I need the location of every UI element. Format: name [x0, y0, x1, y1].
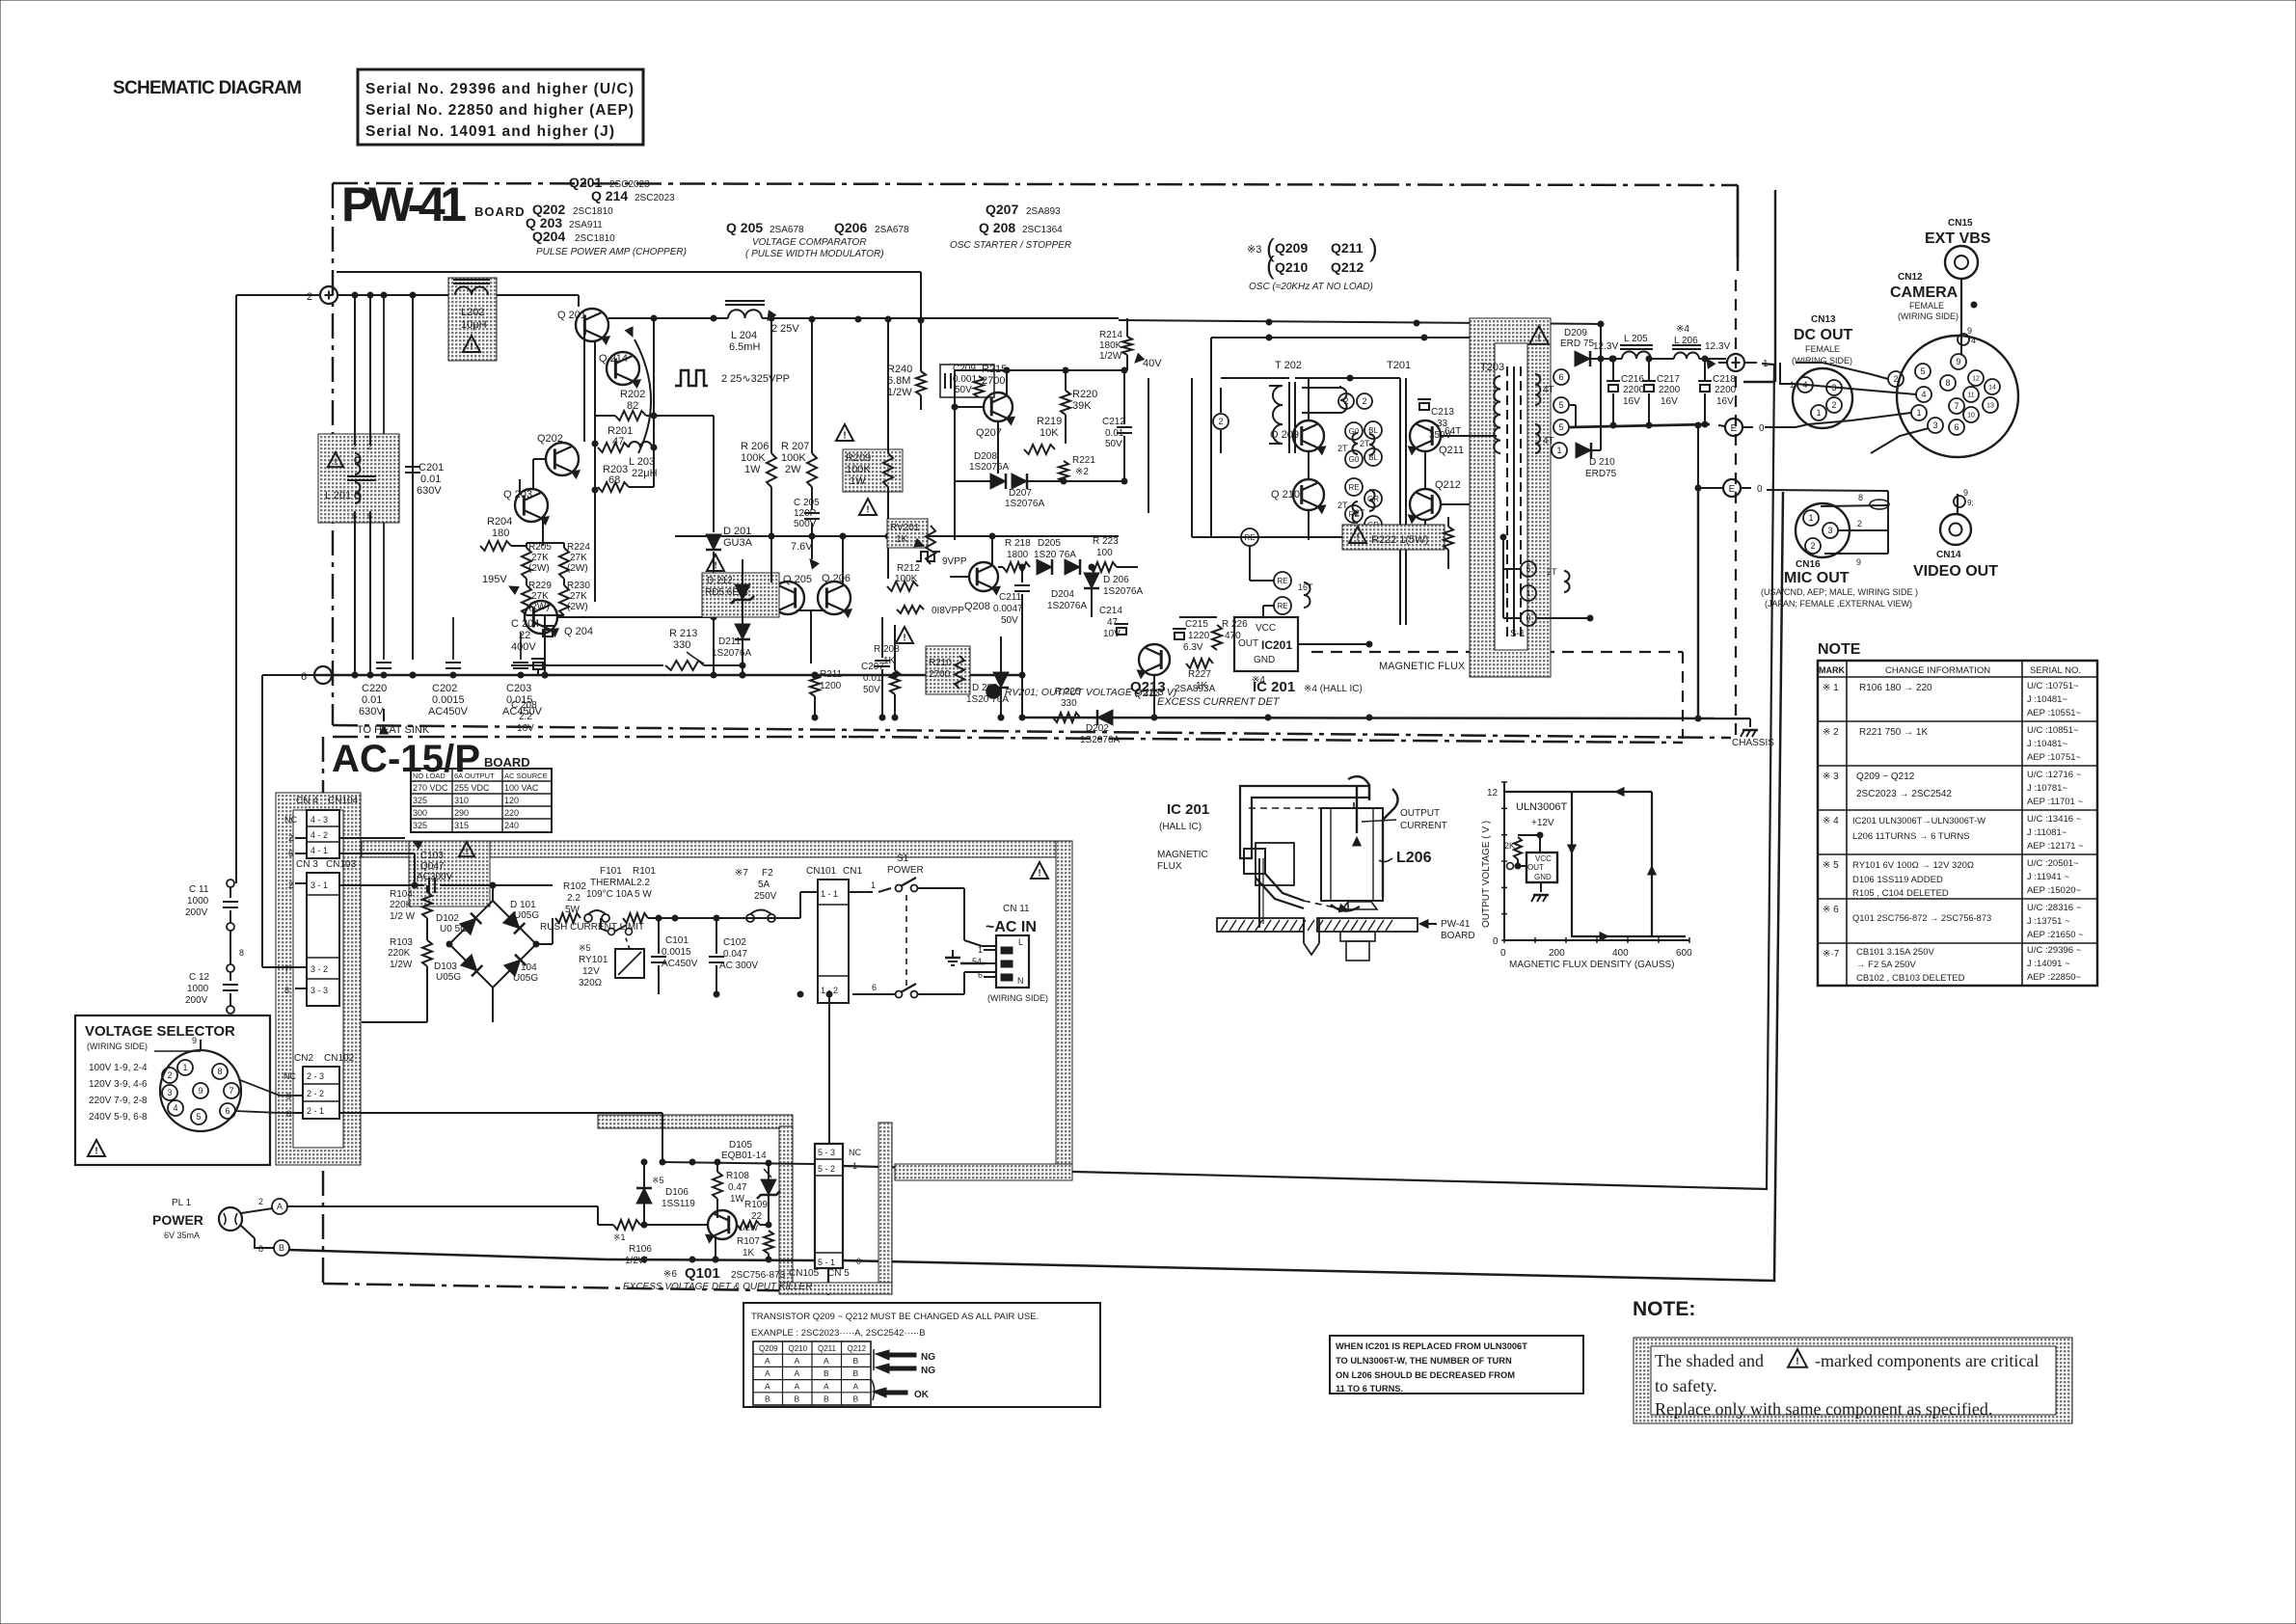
capacitor C12	[230, 972, 231, 981]
svg-text:6: 6	[872, 983, 877, 992]
svg-text:Q 208: Q 208	[979, 220, 1015, 235]
svg-text:2SA678: 2SA678	[875, 225, 909, 235]
svg-text:MIC OUT: MIC OUT	[1784, 570, 1850, 586]
svg-text:C203: C203	[506, 683, 531, 694]
svg-text:U/C :29396 ~: U/C :29396 ~	[2027, 945, 2082, 956]
svg-text:R109: R109	[744, 1200, 768, 1210]
resistor R219	[1024, 445, 1055, 454]
terminal - (pin 6)	[314, 666, 332, 684]
svg-text:0.01: 0.01	[1105, 428, 1124, 439]
svg-text:100: 100	[1096, 548, 1113, 558]
svg-text:0: 0	[1500, 948, 1506, 959]
svg-text:ON L206 SHOULD BE DECREASE: ON L206 SHOULD BE DECREASED FROM	[1336, 1370, 1515, 1380]
svg-text:BOARD: BOARD	[474, 204, 526, 219]
camera pin 13	[1983, 397, 1998, 413]
svg-text:U/C :12716 ~: U/C :12716 ~	[2027, 770, 2082, 780]
resistor R208	[890, 670, 900, 694]
svg-text:※6: ※6	[663, 1269, 677, 1280]
svg-text:10μH: 10μH	[461, 319, 487, 331]
svg-text:6: 6	[1954, 422, 1958, 432]
svg-text:CN 11: CN 11	[1003, 904, 1030, 914]
svg-text:B: B	[853, 1356, 859, 1366]
svg-text:120: 120	[504, 796, 519, 805]
svg-text:RV201: RV201	[890, 523, 920, 533]
transformer T201 core	[1399, 378, 1401, 625]
graph hysteresis curve	[1504, 791, 1652, 793]
wire bottom bus AC	[288, 1250, 815, 1260]
svg-text:50V: 50V	[1001, 615, 1018, 626]
wire Q201 emitter rail	[608, 317, 728, 319]
svg-text:GND: GND	[1534, 873, 1552, 881]
wire RE bus	[1192, 536, 1416, 538]
svg-text:A: A	[853, 1381, 859, 1391]
transistor pair table grid	[753, 1341, 871, 1405]
wire	[998, 566, 1003, 568]
pin circle 2	[1213, 414, 1229, 429]
capacitor C212	[1117, 426, 1132, 428]
svg-text:Q204: Q204	[532, 229, 565, 244]
svg-text:290: 290	[454, 808, 469, 818]
svg-text:NC: NC	[849, 1148, 861, 1157]
transistor Q213	[1139, 644, 1170, 675]
VOLTAGE SELECTOR box	[75, 1015, 270, 1165]
svg-text:C202: C202	[432, 683, 457, 694]
warning triangle T203	[1529, 326, 1549, 344]
svg-text:82: 82	[627, 400, 638, 412]
svg-text:※7: ※7	[735, 868, 748, 879]
svg-text:11: 11	[1967, 392, 1974, 399]
resistor R214	[1122, 337, 1132, 355]
svg-text:8: 8	[284, 986, 289, 995]
svg-text:EXCESS CURRENT DET: EXCESS CURRENT DET	[1157, 696, 1281, 708]
svg-text:C220: C220	[362, 683, 387, 694]
wire video lead	[1957, 427, 1958, 494]
svg-text:A: A	[824, 1381, 829, 1391]
svg-text:NO LOAD: NO LOAD	[413, 771, 446, 780]
svg-text:R204: R204	[487, 516, 512, 528]
svg-text:FEMALE: FEMALE	[1805, 344, 1840, 354]
resistor R205 27K	[522, 548, 531, 579]
svg-text:NG: NG	[921, 1352, 935, 1363]
svg-text:DC OUT: DC OUT	[1794, 327, 1853, 343]
svg-text:EQB01-14: EQB01-14	[721, 1150, 767, 1161]
transformer T203 winding 64T	[1494, 376, 1500, 453]
selector pin 4	[168, 1100, 183, 1116]
jack EXT VBS	[1945, 246, 1978, 279]
svg-text:CN104: CN104	[328, 796, 359, 806]
svg-text:2T: 2T	[1360, 439, 1370, 448]
svg-text:U05G: U05G	[436, 972, 461, 983]
svg-text:EXANPLE : 2SC2023·····A, 2SC2: EXANPLE : 2SC2023·····A, 2SC2542·····B	[751, 1328, 926, 1339]
transistor Q208	[969, 562, 998, 591]
transformer T203 right winding 4T lower	[1535, 424, 1540, 453]
resistor R224 27K	[559, 548, 569, 579]
svg-text:1800: 1800	[1007, 550, 1029, 560]
svg-text:CN105: CN105	[789, 1268, 820, 1279]
pin 5 b	[1553, 420, 1569, 435]
svg-text:Q 209: Q 209	[1270, 429, 1299, 441]
svg-text:A: A	[795, 1381, 800, 1391]
svg-text:Replace only with same compone: Replace only with same component as spec…	[1655, 1399, 1992, 1419]
diode bridge D103	[461, 955, 483, 977]
svg-text:4: 4	[173, 1103, 177, 1113]
svg-text:Q211: Q211	[1331, 240, 1364, 256]
svg-text:N: N	[1017, 976, 1024, 986]
svg-text:D 206: D 206	[1103, 575, 1129, 585]
svg-text:C102: C102	[723, 937, 746, 948]
resistor R209	[883, 453, 893, 487]
svg-text:※ 1: ※ 1	[1823, 683, 1839, 693]
resistor R202	[615, 411, 646, 420]
svg-text:50V: 50V	[863, 685, 880, 695]
svg-text:109°C 10A: 109°C 10A	[586, 889, 634, 900]
svg-text:D106: D106	[665, 1187, 689, 1198]
svg-text:R219: R219	[1037, 416, 1062, 427]
wire - bus	[322, 675, 324, 684]
svg-text:27K: 27K	[531, 553, 549, 563]
terminal + DC	[1727, 354, 1744, 371]
svg-text:D106 1SS119 ADDED: D106 1SS119 ADDED	[1852, 875, 1943, 885]
svg-text:240: 240	[504, 821, 519, 830]
svg-text:SCHEMATIC DIAGRAM: SCHEMATIC DIAGRAM	[113, 78, 302, 98]
wire camera pin4 lead	[1796, 384, 1916, 394]
resistor R226	[1212, 625, 1222, 650]
selector pin 1	[177, 1060, 193, 1075]
svg-text:OUT: OUT	[1527, 863, 1544, 872]
svg-text:U/C :13416 ~: U/C :13416 ~	[2027, 814, 2082, 825]
transistor Q203	[515, 489, 548, 522]
wire	[852, 993, 895, 995]
svg-text:C 205: C 205	[794, 498, 820, 508]
svg-text:320Ω: 320Ω	[579, 978, 603, 988]
svg-text:10V: 10V	[1103, 629, 1121, 639]
wire	[1119, 535, 1192, 537]
svg-text:RY101: RY101	[579, 955, 608, 965]
warning triangle R207	[836, 424, 853, 441]
wire	[1651, 358, 1674, 360]
svg-text:12V: 12V	[582, 966, 600, 977]
svg-text:200: 200	[1549, 948, 1565, 959]
svg-text:(HALL IC): (HALL IC)	[1159, 822, 1202, 832]
svg-text:ULN3006T: ULN3006T	[1516, 801, 1567, 813]
svg-text:27K: 27K	[570, 591, 587, 602]
svg-text:※ 5: ※ 5	[1823, 860, 1839, 871]
svg-text:R212: R212	[897, 563, 920, 574]
svg-text:4 - 2: 4 - 2	[311, 830, 328, 840]
svg-text:(2W): (2W)	[528, 602, 550, 612]
svg-text:NOTE: NOTE	[1818, 641, 1861, 658]
svg-text:A: A	[795, 1368, 800, 1378]
svg-text:250V: 250V	[754, 891, 777, 902]
svg-text:2: 2	[1343, 396, 1348, 406]
shaded vertical band CN column	[276, 793, 361, 1165]
svg-text:0.47: 0.47	[728, 1182, 747, 1193]
micout pin 2	[1805, 538, 1821, 554]
wire	[1697, 425, 1699, 488]
svg-text:2 25V: 2 25V	[771, 323, 799, 335]
svg-text:5: 5	[1920, 366, 1925, 376]
terminal A	[272, 1199, 287, 1214]
svg-text:2SC2023: 2SC2023	[635, 193, 675, 203]
svg-text:※1: ※1	[613, 1232, 626, 1242]
resistor R201	[598, 443, 629, 452]
svg-text:6: 6	[301, 671, 307, 683]
camera pin 11	[1963, 387, 1979, 402]
connector CN105/CN5	[815, 1144, 843, 1268]
svg-text:240V 5-9, 6-8: 240V 5-9, 6-8	[89, 1112, 148, 1123]
svg-text:CN102: CN102	[324, 1053, 355, 1064]
warning triangle RV201	[859, 499, 877, 515]
wire	[1217, 663, 1234, 664]
svg-text:4: 4	[1802, 380, 1807, 390]
shaded C103 box	[409, 841, 490, 907]
svg-text:TO ULN3006T-W, THE NUMBER O: TO ULN3006T-W, THE NUMBER OF TURN	[1336, 1356, 1512, 1366]
camera pin 3	[1928, 418, 1943, 433]
svg-text:GND: GND	[1254, 655, 1275, 665]
svg-text:※ 6: ※ 6	[1823, 905, 1839, 915]
svg-text:1: 1	[1816, 408, 1821, 418]
wire inner rail	[337, 271, 921, 273]
svg-text:to safety.: to safety.	[1655, 1376, 1717, 1395]
svg-text:2 - 3: 2 - 3	[307, 1071, 324, 1081]
wire	[557, 616, 714, 618]
svg-text:C 11: C 11	[189, 884, 209, 895]
svg-text:C212: C212	[1102, 417, 1125, 427]
svg-text:( PULSE WIDTH MODULATOR): ( PULSE WIDTH MODULATOR)	[745, 249, 884, 259]
svg-text:Q212: Q212	[1435, 479, 1461, 491]
svg-text:PW-41: PW-41	[1441, 919, 1471, 930]
wire bridge	[449, 901, 536, 988]
svg-text:AC 300V: AC 300V	[719, 961, 758, 971]
svg-text:Q 205: Q 205	[726, 220, 763, 235]
transistor Q206	[818, 582, 851, 614]
svg-text:NOTE:: NOTE:	[1633, 1298, 1695, 1320]
svg-text:NG: NG	[921, 1366, 935, 1376]
connector DC OUT CN13	[1793, 368, 1852, 428]
svg-text:6: 6	[225, 1106, 230, 1116]
svg-text:12.3V: 12.3V	[1593, 341, 1618, 352]
capacitor C209	[944, 373, 946, 389]
svg-text:270 VDC: 270 VDC	[413, 783, 448, 793]
svg-text:180K: 180K	[1099, 340, 1122, 351]
svg-text:2.2: 2.2	[567, 893, 581, 904]
svg-text:R230: R230	[567, 581, 590, 591]
dcout pin 2	[1826, 397, 1842, 413]
svg-text:4T: 4T	[1543, 385, 1554, 395]
svg-text:27K: 27K	[531, 591, 549, 602]
transformer L201 shaded	[318, 434, 399, 523]
resistor R240	[916, 371, 926, 395]
svg-text:2: 2	[307, 291, 312, 303]
svg-text:100K: 100K	[741, 452, 766, 464]
svg-text:1K: 1K	[896, 534, 908, 545]
svg-text:7: 7	[229, 1086, 233, 1096]
svg-text:2: 2	[288, 880, 293, 890]
svg-text:!: !	[470, 342, 473, 353]
svg-text:120P: 120P	[794, 508, 817, 519]
svg-text:1/2W: 1/2W	[887, 387, 912, 398]
dcout pin 1	[1811, 405, 1826, 420]
selector pin 2	[162, 1068, 177, 1083]
svg-text:R108: R108	[726, 1171, 749, 1181]
svg-text:5: 5	[1558, 400, 1563, 410]
resistor R221	[1059, 461, 1068, 482]
svg-text:!: !	[335, 457, 338, 467]
svg-text:D 212: D 212	[707, 576, 733, 586]
diode D207	[1012, 474, 1027, 489]
svg-text:6: 6	[286, 1109, 291, 1119]
svg-text:RUSH CURRENT LIMIT: RUSH CURRENT LIMIT	[540, 922, 644, 933]
resistor R206	[767, 453, 776, 487]
svg-text:B: B	[824, 1394, 829, 1404]
wire	[659, 993, 852, 995]
svg-text:100K: 100K	[846, 464, 871, 475]
svg-text:BOARD: BOARD	[1441, 931, 1475, 941]
svg-text:※2: ※2	[1075, 467, 1089, 477]
svg-text:(: (	[1266, 251, 1275, 280]
svg-text:OK: OK	[914, 1390, 930, 1400]
svg-text:1 - 1: 1 - 1	[821, 889, 838, 899]
diode D204	[1065, 559, 1080, 575]
svg-text:9: 9	[198, 1086, 203, 1096]
svg-text:R214: R214	[1099, 330, 1122, 340]
svg-text:VCC: VCC	[1535, 854, 1552, 863]
svg-text:AEP :10551~: AEP :10551~	[2027, 708, 2082, 718]
svg-text:R222 1(5W): R222 1(5W)	[1371, 534, 1428, 546]
svg-text:Q 205: Q 205	[783, 574, 812, 585]
svg-text:CN 3: CN 3	[296, 859, 318, 870]
capacitor C103	[428, 878, 430, 893]
wire	[1170, 660, 1186, 663]
svg-text:AEP :12171 ~: AEP :12171 ~	[2027, 841, 2084, 852]
svg-text:Q206: Q206	[834, 220, 867, 235]
capacitor C203	[513, 662, 528, 663]
svg-text:Serial No. 14091 and highe: Serial No. 14091 and higher (J)	[365, 123, 614, 140]
warning triangle L201	[328, 452, 343, 467]
capacitor C201	[405, 466, 420, 468]
shaded band CN105 region	[598, 1115, 793, 1128]
pin circles 2 2	[1338, 393, 1354, 409]
svg-text:68: 68	[608, 474, 620, 486]
svg-text:FLUX: FLUX	[1157, 861, 1182, 872]
svg-text:7: 7	[284, 964, 289, 974]
svg-text:1: 1	[1916, 408, 1921, 418]
svg-text:L202: L202	[461, 307, 484, 318]
svg-text:Q211: Q211	[818, 1344, 837, 1353]
svg-text:220K: 220K	[390, 900, 413, 910]
svg-text:9: 9	[1856, 557, 1861, 567]
svg-text:1S2076A: 1S2076A	[712, 648, 751, 659]
svg-text:A: A	[277, 1202, 283, 1211]
svg-text:1W: 1W	[730, 1194, 745, 1204]
svg-text:CB101 3.15A 250V: CB101 3.15A 250V	[1856, 947, 1934, 958]
svg-text:2T: 2T	[1547, 567, 1557, 577]
svg-text:F101: F101	[600, 866, 622, 877]
shaded R210	[926, 646, 970, 694]
inductor L202	[455, 287, 488, 296]
svg-text:C213: C213	[1431, 407, 1454, 418]
svg-text:Q209 ~ Q212: Q209 ~ Q212	[1856, 771, 1915, 782]
svg-text:SERIAL NO.: SERIAL NO.	[2030, 665, 2081, 676]
svg-text:R 208: R 208	[874, 644, 900, 655]
svg-text:600: 600	[1676, 948, 1692, 959]
resistor R108	[713, 1172, 722, 1199]
svg-text:255 VDC: 255 VDC	[454, 783, 490, 793]
resistor R230 27K	[559, 585, 569, 615]
wire	[653, 318, 655, 487]
svg-text:A: A	[765, 1381, 770, 1391]
svg-text:7: 7	[1954, 401, 1958, 411]
resistor R104	[422, 892, 432, 918]
resistor R223	[1090, 562, 1117, 572]
svg-text:1/2 W: 1/2 W	[390, 911, 416, 922]
svg-text:B: B	[795, 1394, 800, 1404]
svg-text:1/2W: 1/2W	[390, 960, 413, 970]
svg-text:B: B	[853, 1368, 859, 1378]
svg-text:2200: 2200	[1715, 385, 1737, 395]
svg-text:CN2: CN2	[294, 1053, 313, 1064]
svg-text:VOLTAGE SELECTOR: VOLTAGE SELECTOR	[85, 1023, 235, 1040]
svg-text:※ 4: ※ 4	[1823, 816, 1839, 826]
svg-text:R107: R107	[737, 1236, 760, 1247]
transformer T203 core	[1506, 366, 1508, 636]
svg-text:D211: D211	[718, 636, 742, 647]
wire micout leads	[1838, 529, 1888, 531]
svg-text:CN16: CN16	[1796, 559, 1821, 570]
svg-text:5: 5	[1526, 564, 1530, 574]
wire	[230, 882, 236, 884]
transistor Q214	[607, 352, 639, 385]
wire ground bus right	[1022, 717, 1750, 718]
capacitor C208	[511, 664, 663, 666]
terminal E 2	[1723, 479, 1741, 497]
svg-text:400V: 400V	[511, 641, 536, 653]
transistor Q202	[546, 443, 579, 475]
svg-text:220V 7-9, 2-8: 220V 7-9, 2-8	[89, 1096, 148, 1106]
camera pin 8	[1940, 375, 1956, 391]
svg-text:OSC (≈20KHz AT NO LOAD): OSC (≈20KHz AT NO LOAD)	[1249, 282, 1373, 292]
warning triangle L202	[463, 336, 480, 352]
svg-text:T 202: T 202	[1275, 360, 1302, 371]
wire	[950, 576, 969, 578]
svg-text:Q 210: Q 210	[1271, 489, 1300, 501]
svg-text:※4: ※4	[1252, 675, 1265, 686]
svg-text:50V: 50V	[955, 385, 972, 395]
svg-text:ERD 75: ERD 75	[1560, 338, 1594, 349]
svg-text:0.047: 0.047	[723, 949, 747, 960]
chassis ground	[1749, 718, 1751, 727]
svg-text:0.0047: 0.0047	[993, 604, 1023, 614]
resistor R220	[1061, 391, 1070, 415]
svg-text:CURRENT: CURRENT	[1400, 821, 1447, 831]
diode D210	[1576, 443, 1591, 458]
terminal B	[274, 1240, 289, 1256]
svg-text:8: 8	[1945, 378, 1950, 388]
transistor Q209	[1293, 420, 1324, 451]
resistor R218	[1003, 562, 1030, 572]
connector CAMERA CN12	[1897, 336, 2018, 457]
svg-text:!: !	[466, 847, 469, 856]
svg-text:!: !	[843, 431, 846, 442]
svg-text:10K: 10K	[1040, 427, 1059, 439]
svg-text:2: 2	[1831, 400, 1836, 410]
svg-text:6: 6	[288, 849, 293, 858]
pin 6	[1553, 369, 1569, 385]
svg-text:(2W): (2W)	[567, 602, 588, 612]
svg-text:(WIRING SIDE): (WIRING SIDE)	[1792, 356, 1852, 365]
svg-text:RE: RE	[1348, 483, 1359, 492]
svg-text:J :10481~: J :10481~	[2027, 694, 2067, 705]
